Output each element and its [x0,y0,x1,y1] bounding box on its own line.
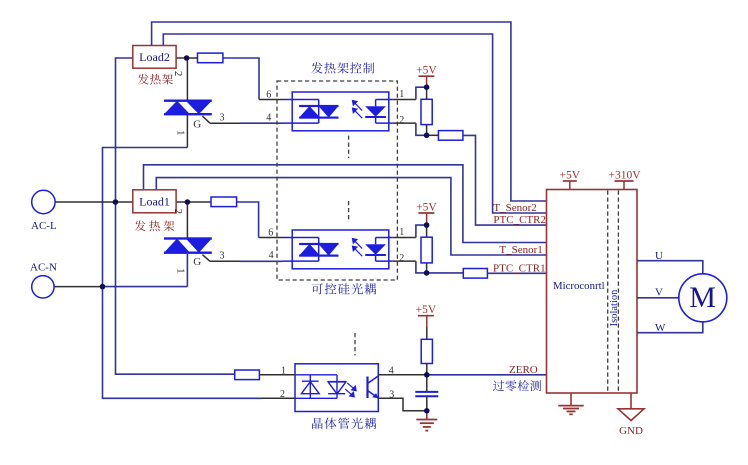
wire Load2 to triac2 A2 [186,58,188,100]
svg-text:G: G [193,118,201,130]
wire to R4 [426,87,428,99]
wire gate2 to pin4 [240,122,283,124]
label 发热架控制 [311,62,374,73]
isolation dashed line 2 [617,191,619,393]
svg-text:U: U [655,250,663,262]
resistor R1 (Load2 snubber) [198,53,223,63]
power +5V (MCU) [563,180,577,182]
opto U1 light arrows [353,101,363,119]
opto U3 phototransistor [368,376,379,399]
wire R1 to opto1 pin6 [223,58,259,100]
pin 2 stub opto3 [262,397,295,399]
svg-text:M: M [689,281,716,314]
label 晶体管光耦 [312,418,376,429]
svg-text:2: 2 [280,389,285,400]
opto-triac IC U1 body [292,92,389,131]
label 发热架 (Load1) [135,220,175,231]
node Load1 output [176,201,211,203]
svg-text:6: 6 [268,227,273,238]
power stub 310V [623,181,625,190]
wire Load1 to triac1 A2 [186,202,188,238]
junction [185,199,191,205]
resistor R4 pull-up [421,99,432,124]
opto U3 light arrows [345,383,356,397]
wire W phase [637,322,703,333]
wire triac2 A1 down [186,115,188,148]
wire to R5 [426,225,428,237]
pin 1 stub opto2 [393,237,416,239]
svg-text:1: 1 [175,130,187,136]
wire node to R8 [427,272,464,274]
svg-text:Load2: Load2 [139,50,170,64]
svg-text:PTC_CTR1: PTC_CTR1 [493,262,546,274]
wire AC-L rail to Load2 and zero-cross R [116,58,235,374]
wire gate1 to pin4 [240,260,283,262]
wire U phase [637,261,703,274]
svg-text:T_Senor1: T_Senor1 [499,244,542,256]
junction [100,284,106,290]
wire R5 to node [426,263,428,273]
dashed continuation mark above opto3 [354,333,356,355]
wire Load2 sense B / net T_Senor2 [163,34,546,213]
junction [424,372,430,378]
wire Load2 sense A to MCU pin row1 [152,22,547,201]
svg-text:Isolation: Isolation [609,289,620,326]
opto U3 inner LED pair [295,375,346,399]
wire AC-N port to rail [54,286,103,288]
svg-text:4: 4 [266,112,271,123]
junction [184,55,190,61]
wire opto1 pin2 to R node [416,123,427,135]
junction [424,270,430,276]
svg-text:Load1: Load1 [139,194,170,208]
pin 4 stub opto3 [378,374,427,376]
Load1 box [133,190,176,213]
svg-text:+5V: +5V [560,170,581,182]
dashed continuation mark lower [348,201,350,222]
junction [424,222,430,228]
wire opto1 pin1 to +5V node [416,87,427,99]
wire Load1 sense B / net T_Senor1 [156,178,546,255]
power +5V (zero-cross pull-up) [418,315,434,317]
label 过零检测 [493,380,541,391]
wire V phase [637,297,679,299]
svg-text:G: G [193,256,201,268]
node Load2 output [176,57,197,59]
wire opto2 pin1 to +5V node [416,225,427,237]
wire to R6 [426,327,428,339]
wire C1 to gnd node [426,396,428,411]
svg-text:+5V: +5V [416,65,437,77]
wire AC-N rail (triac2 A1) down to opto pin2 [103,148,263,399]
resistor R3 (zero-cross input) [235,370,260,380]
wire opto2 pin2 to R node [416,261,427,273]
power +5V (opto2 pull-up) [418,212,434,214]
dashed continuation mark upper [348,136,350,158]
ground (MCU logic) [558,405,583,407]
svg-text:GND: GND [619,425,643,437]
ground GND arrow symbol [630,393,632,409]
triac Q1 (Load1 heater) [164,237,212,254]
svg-text:1: 1 [399,227,404,238]
svg-text:6: 6 [266,90,271,101]
svg-text:1: 1 [399,89,404,100]
isolation dashed line 1 [607,191,609,393]
wire AC-L port to Load1 [55,201,133,203]
microcontroller U4 box [547,190,638,394]
wire Load1 sense A to MCU [144,165,547,243]
ground (zero-cross) [416,419,437,421]
wire R8 to MCU / net PTC_CTR1 [487,272,546,274]
svg-text:+5V: +5V [416,304,437,316]
junction [424,408,430,414]
triac Q2 (Load2 heater) [164,100,212,116]
pin 1 stub opto1 [393,99,416,101]
opto U2 light arrows [353,239,363,257]
svg-text:4: 4 [269,250,274,261]
svg-text:1: 1 [175,268,187,274]
svg-text:2: 2 [172,209,184,215]
opto U2 LED [365,244,386,256]
resistor R2 (Load1 snubber) [211,197,237,207]
svg-text:3: 3 [220,113,225,124]
svg-text:3: 3 [220,250,225,261]
junction [113,199,119,205]
svg-text:+310V: +310V [608,170,641,182]
svg-text:AC-L: AC-L [31,220,57,232]
wire R6 to ZERO node [426,364,428,375]
pin 1 stub opto3 [259,374,295,376]
opto-transistor IC U3 body [295,364,378,412]
motor M circle [679,274,727,322]
pin 2 stub opto2 [393,260,416,262]
wire R4 to node [426,125,428,136]
junction [424,84,430,90]
svg-text:2: 2 [172,71,184,77]
dashed box opto group [277,81,397,280]
svg-text:2: 2 [399,253,404,264]
svg-text:Microconrtl: Microconrtl [553,280,605,292]
Load2 box [133,46,176,69]
wire to ground [426,411,428,420]
pin 6 stub opto2 [259,237,283,239]
opto U2 photo-triac element [299,243,338,257]
pin 2 stub opto1 [393,122,416,124]
power stub [569,181,571,190]
svg-text:2: 2 [399,115,404,126]
power stub [426,316,428,327]
port AC-N circle [32,276,54,298]
port AC-L circle [32,190,55,213]
svg-text:W: W [655,322,666,334]
svg-text:ZERO: ZERO [509,364,538,376]
svg-text:T_Senor2: T_Senor2 [493,202,536,214]
label 发热架 (Load2) [138,74,173,85]
opto U1 LED [365,106,386,118]
capacitor C1 [415,392,438,396]
resistor R7 (PTC_CTR2 series) [438,131,463,141]
wire triac2 gate to opto1 pin4 [202,116,210,123]
label 可控硅光耦 [312,283,377,294]
pin 6 stub opto1 [259,99,283,101]
power +5V (opto1 pull-up) [418,75,434,77]
pin 3 stub opto3 to gnd node [378,398,427,411]
resistor R6 pull-up [421,339,432,363]
resistor R5 pull-up [421,237,432,263]
svg-text:1: 1 [281,365,286,376]
opto U1 photo-triac element [299,105,338,119]
svg-text:V: V [655,286,663,298]
wire R2 to opto2 pin6 [237,202,259,238]
wire node to R7 [427,134,439,136]
wire ZERO to MCU [427,374,547,376]
wire AC-N to triac1 A1 [103,286,188,288]
wire triac1 gate to opto2 pin4 [202,255,210,262]
svg-text:PTC_CTR2: PTC_CTR2 [493,214,546,226]
resistor R8 (PTC_CTR1 series) [463,269,487,279]
wire MCU to ground [570,393,572,405]
wire node to C1 [426,375,428,392]
svg-text:+5V: +5V [416,202,437,214]
junction [424,133,430,139]
wire triac1 A1 riser [186,254,188,287]
wire R7 to MCU / net PTC_CTR2 [463,135,547,225]
power +310V (MCU) [615,180,634,182]
svg-text:AC-N: AC-N [30,262,57,274]
power stub [426,76,428,87]
opto-triac IC U2 body [292,230,389,269]
power stub [426,213,428,225]
